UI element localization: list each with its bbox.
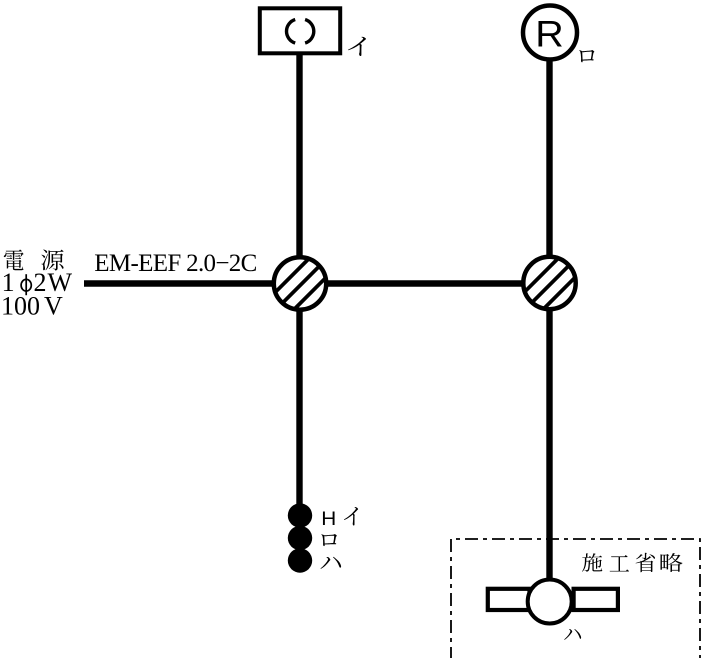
svg-text:100: 100 xyxy=(1,291,40,320)
svg-text:EM-EEF 2.0−2C: EM-EEF 2.0−2C xyxy=(94,250,257,277)
svg-text:H: H xyxy=(321,509,336,530)
svg-text:V: V xyxy=(44,291,63,320)
svg-text:R: R xyxy=(535,13,564,54)
